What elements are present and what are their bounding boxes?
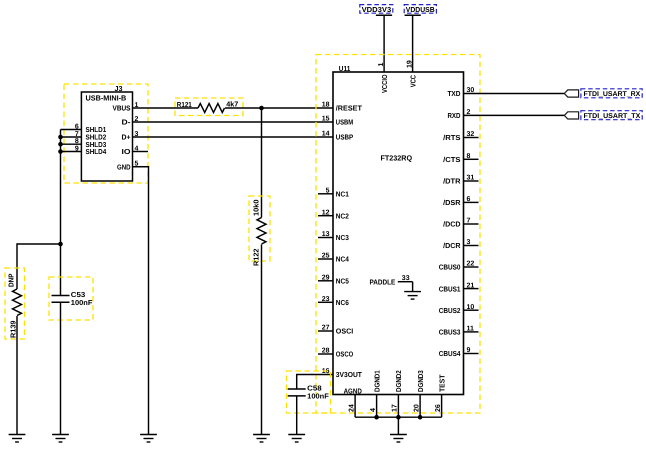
- svg-text:CBUS0: CBUS0: [439, 263, 461, 272]
- U11 pin 11 CBUS3: [439, 326, 479, 337]
- U11 pin 9 CBUS4: [439, 347, 479, 358]
- svg-text:USB-MINI-B: USB-MINI-B: [86, 94, 127, 103]
- U11 pin 23 NC6: [318, 296, 349, 307]
- junction DGND3 on ground bus: [418, 415, 423, 420]
- svg-text:NC2: NC2: [336, 211, 349, 220]
- svg-text:CBUS3: CBUS3: [439, 328, 461, 337]
- wire PADDLE to internal ground: [412, 282, 414, 292]
- svg-text:OSCO: OSCO: [336, 350, 354, 359]
- svg-text:NC3: NC3: [336, 233, 349, 242]
- svg-text:NC4: NC4: [336, 255, 349, 264]
- wire VDDUSB to U11 pin 19 VCC: [412, 15, 414, 72]
- svg-text:VBUS: VBUS: [113, 104, 131, 113]
- wire ground bus to ground symbol: [397, 417, 399, 434]
- svg-text:4: 4: [370, 408, 377, 412]
- svg-text:3: 3: [467, 239, 471, 246]
- svg-text:USBM: USBM: [336, 118, 353, 127]
- svg-text:12: 12: [322, 209, 330, 216]
- wire J3 GND down to ground: [133, 167, 149, 435]
- svg-text:/RESET: /RESET: [336, 104, 363, 113]
- svg-text:6: 6: [467, 196, 471, 203]
- svg-text:10k0: 10k0: [251, 200, 260, 217]
- svg-text:NC1: NC1: [336, 190, 349, 199]
- svg-text:FTDI_USART_RX: FTDI_USART_RX: [584, 91, 641, 98]
- svg-text:1: 1: [378, 63, 385, 67]
- svg-text:/CTS: /CTS: [443, 155, 461, 164]
- svg-text:PADDLE: PADDLE: [370, 277, 396, 286]
- resistor R121: [177, 99, 239, 112]
- U11 pin 25 NC4: [318, 253, 349, 264]
- svg-text:DGND1: DGND1: [372, 370, 381, 392]
- svg-text:4k7: 4k7: [226, 99, 238, 108]
- ground below R139: [9, 435, 26, 443]
- R121 zigzag body: [198, 104, 224, 113]
- wire branch to R139: [17, 244, 61, 289]
- U11 pin 7 /DCD: [443, 218, 478, 229]
- svg-text:/DTR: /DTR: [443, 177, 461, 186]
- svg-text:9: 9: [467, 347, 471, 354]
- C53 selection box: [49, 277, 93, 320]
- svg-text:VCCIO: VCCIO: [380, 74, 389, 93]
- ground at PADDLE: [404, 292, 421, 300]
- svg-text:U11: U11: [339, 64, 351, 73]
- U11 pin 33 PADDLE: [370, 275, 413, 287]
- U11 pin 21 CBUS1: [439, 282, 479, 293]
- wire J3 D- to U11 USBM: [133, 121, 334, 123]
- R139 zigzag body: [13, 289, 22, 315]
- svg-text:/RTS: /RTS: [443, 133, 461, 142]
- junction SHLD4 on shield bus: [58, 149, 63, 154]
- svg-text:R122: R122: [251, 249, 260, 267]
- wire shield bus vertical J3 SHLD1-4 down to C53: [60, 130, 62, 296]
- svg-text:/DSR: /DSR: [443, 198, 461, 207]
- svg-text:33: 33: [402, 275, 410, 282]
- U11 body: [333, 72, 464, 395]
- wire C58 to ground: [296, 396, 298, 435]
- port FTDI_USART_RX: [564, 89, 642, 98]
- J3 body: [81, 92, 132, 181]
- J3 pin 3 D+: [122, 131, 139, 142]
- svg-text:20: 20: [413, 404, 420, 412]
- U11 pin 13 NC3: [318, 231, 349, 242]
- selection box around R121: [175, 98, 243, 116]
- U11 pin 20 DGND3: [413, 370, 425, 417]
- svg-text:RXD: RXD: [447, 111, 460, 120]
- svg-text:11: 11: [467, 326, 475, 333]
- svg-text:OSCI: OSCI: [336, 327, 353, 336]
- svg-text:AGND: AGND: [344, 386, 362, 395]
- svg-text:VDD3V3: VDD3V3: [362, 5, 392, 14]
- R122 selection box: [249, 196, 270, 261]
- U11 pin 1 VCCIO: [378, 63, 389, 94]
- svg-text:19: 19: [406, 60, 413, 68]
- svg-text:CBUS1: CBUS1: [439, 284, 461, 293]
- svg-text:3V3OUT: 3V3OUT: [336, 370, 363, 379]
- svg-text:32: 32: [467, 131, 475, 138]
- svg-text:TXD: TXD: [447, 89, 460, 98]
- resistor R139 (DNP): [5, 268, 25, 339]
- svg-text:7: 7: [75, 131, 79, 138]
- U11 pin 18 /RESET: [322, 102, 363, 113]
- svg-text:IO: IO: [122, 147, 131, 156]
- U11 pin 4 DGND1: [370, 370, 382, 417]
- U11 pin 27 OSCI: [318, 325, 353, 336]
- C58 selection box: [287, 371, 331, 413]
- svg-text:VDDUSB: VDDUSB: [406, 5, 435, 14]
- junction DGND2 on ground bus: [396, 415, 401, 420]
- U11 pin 31 /DTR: [443, 175, 478, 186]
- ground below C58: [288, 435, 305, 443]
- svg-text:18: 18: [322, 102, 330, 109]
- svg-text:FTDI_USART_TX: FTDI_USART_TX: [584, 113, 641, 120]
- U11 pin 29 NC5: [318, 275, 349, 286]
- U11 pin 2 RXD: [447, 109, 470, 120]
- svg-text:DNP: DNP: [7, 273, 16, 287]
- U11 pin 14 USBP: [322, 131, 354, 142]
- wire J3 VBUS to R121: [133, 107, 199, 109]
- svg-text:GND: GND: [117, 162, 131, 171]
- wire C53 to ground: [60, 302, 62, 434]
- U11 pin 17 DGND2: [392, 370, 404, 417]
- svg-text:10: 10: [467, 304, 475, 311]
- U11 pin 28 OSCO: [318, 348, 354, 359]
- U11 pin 12 NC2: [318, 209, 349, 220]
- wire U11 3V3OUT to C58: [297, 375, 333, 390]
- svg-text:28: 28: [322, 348, 330, 355]
- junction SHLD2 on shield bus: [58, 135, 63, 140]
- svg-text:8: 8: [75, 138, 79, 145]
- selection box around U11: [316, 55, 480, 414]
- wire U11 to port FTDI_USART_TX: [464, 114, 565, 116]
- svg-text:NC5: NC5: [336, 277, 349, 286]
- svg-text:DGND2: DGND2: [394, 370, 403, 392]
- U11 pin 30 TXD: [447, 87, 474, 98]
- U11 pin 10 CBUS2: [439, 304, 479, 315]
- svg-text:13: 13: [322, 231, 330, 238]
- svg-text:7: 7: [467, 218, 471, 225]
- svg-text:31: 31: [467, 175, 475, 182]
- svg-text:CBUS2: CBUS2: [439, 306, 461, 315]
- svg-text:R139: R139: [9, 321, 18, 339]
- svg-text:/DCR: /DCR: [443, 241, 461, 250]
- svg-text:100nF: 100nF: [71, 298, 93, 307]
- ground below R122: [253, 435, 270, 443]
- ground below C53: [52, 435, 69, 443]
- svg-text:5: 5: [326, 188, 330, 195]
- power symbol VDD3V3: [360, 5, 393, 16]
- wire VDD3V3 to U11 pin 1 VCCIO: [383, 15, 385, 72]
- wire node down to R122: [261, 108, 263, 218]
- J3 pin 5 GND: [117, 161, 148, 172]
- ground below U11: [390, 435, 407, 443]
- IC U11 FT232RQ: [318, 60, 479, 417]
- U11 pin 16 3V3OUT: [322, 368, 363, 379]
- svg-text:100nF: 100nF: [307, 392, 329, 401]
- svg-text:21: 21: [467, 282, 475, 289]
- U11 pin 6 /DSR: [443, 196, 478, 207]
- C53 plates: [52, 295, 70, 297]
- U11 pin 3 /DCR: [443, 239, 478, 250]
- svg-text:USBP: USBP: [336, 133, 354, 142]
- connector J3 USB-MINI-B: [61, 84, 149, 181]
- svg-text:23: 23: [322, 296, 330, 303]
- junction shield bus to R139 branch: [58, 242, 63, 247]
- J3 pin 8 SHLD3: [61, 138, 107, 149]
- J3 pin 2 D-: [122, 116, 139, 127]
- U11 pin 19 VCC: [406, 60, 417, 87]
- U11 pin 32 /RTS: [443, 131, 478, 142]
- svg-text:6: 6: [75, 124, 79, 131]
- svg-text:CBUS4: CBUS4: [439, 349, 461, 358]
- wire U11 to port FTDI_USART_RX: [464, 93, 565, 95]
- svg-text:8: 8: [467, 153, 471, 160]
- J3 pin 4 IO: [122, 145, 149, 156]
- C58 plates: [288, 388, 306, 390]
- junction DGND1 on ground bus: [374, 415, 379, 420]
- svg-text:17: 17: [392, 404, 399, 412]
- svg-text:TEST: TEST: [437, 374, 446, 392]
- resistor R122: [249, 196, 270, 266]
- svg-text:DGND3: DGND3: [416, 370, 425, 392]
- svg-text:27: 27: [322, 325, 330, 332]
- R122 zigzag body: [257, 218, 266, 244]
- svg-text:9: 9: [75, 146, 79, 153]
- svg-text:25: 25: [322, 253, 330, 260]
- capacitor C58: [287, 371, 331, 413]
- capacitor C53: [49, 277, 93, 320]
- svg-text:VCC: VCC: [408, 75, 417, 87]
- svg-text:29: 29: [322, 275, 330, 282]
- svg-text:26: 26: [435, 404, 442, 412]
- svg-text:R121: R121: [177, 100, 192, 109]
- svg-text:NC6: NC6: [336, 298, 349, 307]
- svg-text:24: 24: [348, 404, 355, 412]
- svg-text:14: 14: [322, 131, 330, 138]
- ground below J3 GND: [140, 435, 157, 443]
- R139 selection box: [5, 268, 25, 339]
- junction R121 / R122 node: [259, 106, 264, 111]
- wire R139 to ground: [16, 316, 18, 435]
- svg-text:D+: D+: [122, 133, 131, 142]
- wire R122 to ground: [261, 245, 263, 435]
- wire R121 to U11 pin 18 /RESET: [225, 107, 333, 109]
- svg-text:D-: D-: [122, 118, 132, 127]
- svg-text:22: 22: [467, 261, 475, 268]
- U11 pin 15 USBM: [322, 116, 353, 127]
- port FTDI_USART_TX: [564, 111, 642, 120]
- J3 pin 9 SHLD4: [61, 146, 107, 157]
- svg-text:/DCD: /DCD: [443, 220, 460, 229]
- J3 pin 7 SHLD2: [61, 131, 107, 142]
- wire bottom ground bus AGND/DGND/TEST: [355, 416, 442, 418]
- U11 pin 24 AGND: [344, 386, 362, 417]
- junction SHLD3 on shield bus: [58, 142, 63, 147]
- J3 pin 1 VBUS: [113, 102, 139, 113]
- U11 pin 8 /CTS: [443, 153, 478, 164]
- svg-text:4: 4: [135, 145, 139, 152]
- U11 pin 5 NC1: [318, 188, 349, 199]
- J3 pin 6 SHLD1: [61, 124, 107, 135]
- svg-text:15: 15: [322, 116, 330, 123]
- U11 pin 26 TEST: [435, 374, 447, 417]
- svg-text:J3: J3: [115, 84, 123, 93]
- wire J3 D+ to U11 USBP: [133, 136, 334, 138]
- selection box around connector J3: [64, 84, 148, 183]
- svg-text:SHLD4: SHLD4: [86, 147, 107, 156]
- power symbol VDDUSB: [404, 5, 436, 16]
- U11 pin 22 CBUS0: [439, 261, 479, 272]
- svg-text:FT232RQ: FT232RQ: [381, 154, 413, 163]
